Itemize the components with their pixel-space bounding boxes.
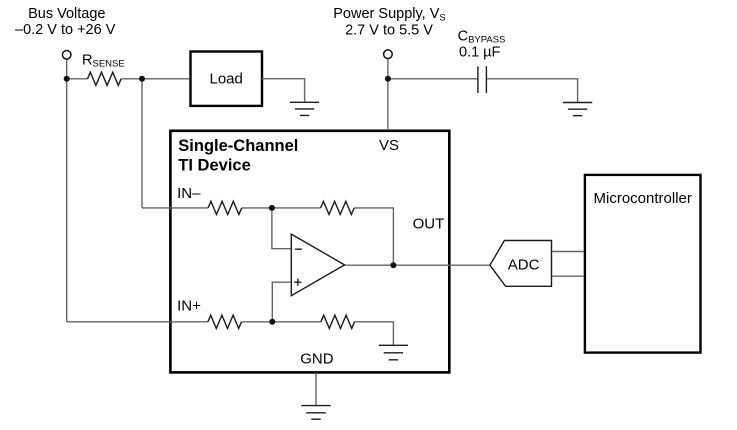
junction: R_SENSE right / load node (139, 76, 145, 82)
wire: ADC to microcontroller bottom (552, 275, 585, 277)
ADC converter (490, 241, 552, 287)
junction: supply / VS node (385, 76, 391, 82)
resistor: non-inverting input resistor (208, 315, 242, 328)
capacitor C_BYPASS (478, 66, 487, 93)
op-amp minus input sign (295, 248, 302, 250)
svg-text:Bus Voltage: Bus Voltage (28, 6, 105, 22)
svg-text:Microcontroller: Microcontroller (594, 190, 692, 207)
wire: GND pin to ground (315, 372, 317, 405)
wire: R_SENSE row left (67, 78, 88, 80)
wire: op-amp output to ADC (345, 264, 490, 266)
resistor R_SENSE (88, 72, 122, 85)
svg-text:ADC: ADC (508, 256, 540, 273)
ground: GND pin ground (301, 406, 330, 420)
junction: bus / R_SENSE left node (64, 76, 70, 82)
svg-text:CBYPASS: CBYPASS (458, 29, 506, 46)
node: power supply terminal (384, 50, 393, 59)
wire: supply node to capacitor (388, 78, 477, 80)
node: bus voltage input terminal (62, 51, 71, 60)
wire: between IN+ resistor and gain resistor (242, 321, 321, 323)
svg-text:Load: Load (210, 71, 243, 88)
junction: non-inverting input node (269, 319, 275, 325)
svg-text:Single-Channel: Single-Channel (178, 137, 298, 155)
wire: R_SENSE to load box (121, 78, 189, 80)
svg-text:OUT: OUT (413, 216, 445, 233)
wire: bus vertical run to IN+ row (66, 59, 68, 322)
microcontroller box (585, 175, 701, 353)
resistor: gain-setting resistor to ground (321, 315, 355, 328)
wire: IN- row into box (142, 207, 208, 209)
wire: IN+ row from bus into box (67, 321, 208, 323)
wire: gain resistor to internal ground (355, 322, 394, 345)
svg-text:RSENSE: RSENSE (82, 53, 125, 70)
op-amp A1 (291, 234, 344, 296)
svg-text:0.1 µF: 0.1 µF (459, 45, 501, 61)
svg-text:VS: VS (379, 137, 399, 154)
wire: ADC to microcontroller top (552, 251, 585, 253)
wire: load box to ground (262, 79, 305, 102)
resistor: inverting input resistor (208, 201, 242, 214)
svg-text:GND: GND (300, 351, 334, 368)
junction: output node (390, 262, 396, 268)
resistor: feedback resistor (321, 201, 355, 214)
ground: bypass capacitor ground (563, 103, 592, 116)
wire: VS vertical from supply node to TI box (387, 59, 389, 130)
svg-text:2.7 V to 5.5 V: 2.7 V to 5.5 V (345, 23, 433, 39)
ground: load ground (290, 102, 319, 115)
svg-text:IN–: IN– (177, 185, 201, 202)
TI device box U1 (170, 131, 449, 373)
svg-text:–0.2 V to +26 V: –0.2 V to +26 V (15, 22, 116, 38)
svg-text:TI Device: TI Device (178, 157, 250, 175)
wire: IN- vertical from R_SENSE right node (141, 79, 143, 208)
junction: inverting input node (269, 205, 275, 211)
wire: between input resistor and feedback resistor (242, 207, 321, 209)
ground: gain resistor ground (379, 345, 408, 360)
svg-text:IN+: IN+ (177, 298, 201, 315)
load box (191, 52, 263, 106)
wire: feedback resistor to OUT node (354, 208, 393, 265)
wire: inverting input stub (272, 208, 291, 249)
svg-text:Power Supply, VS: Power Supply, VS (333, 6, 445, 24)
wire: non-inverting input stub (272, 282, 291, 322)
op-amp plus input sign (294, 279, 301, 286)
wire: capacitor to ground (487, 79, 577, 102)
